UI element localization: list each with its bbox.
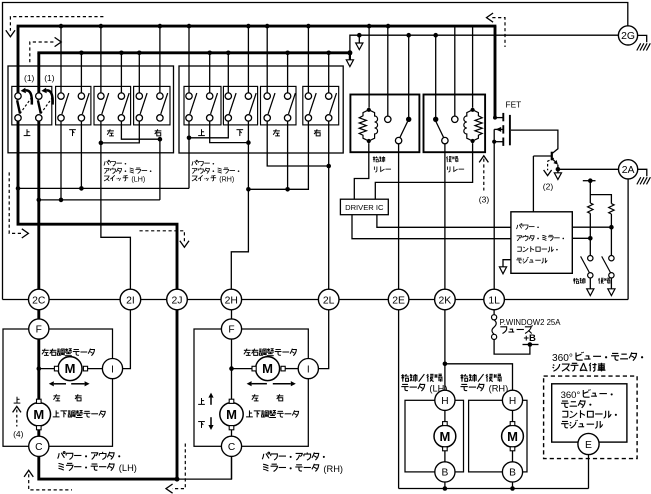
relay box return (fukki) relay — [424, 95, 486, 153]
motor M left-right adjust LH — [86, 368, 103, 370]
svg-text:(RH): (RH) — [489, 383, 509, 393]
switch box power outer mirror switch LH — [8, 66, 174, 153]
connector 2E — [388, 289, 409, 310]
wire return coil to driver IC — [375, 143, 472, 199]
label up-down adjust motor RH — [246, 410, 253, 416]
connector 2H — [221, 289, 242, 310]
label storage relay — [373, 156, 379, 162]
connector I RH — [298, 359, 318, 379]
switch sub-box up LH — [12, 86, 52, 125]
wire A: bus1 down to up-switch LH left (thick) — [17, 26, 20, 93]
svg-text:2G: 2G — [621, 31, 635, 42]
wire B lower run: switch down through 2C F M C to bottom (thick) — [39, 121, 177, 479]
connector 2C — [29, 289, 50, 310]
switch sub-box down LH — [56, 86, 91, 125]
svg-text:2H: 2H — [225, 295, 238, 306]
wire 2G bus (thin ground bus to 2G) — [350, 35, 619, 53]
dashed arrow (4) — [13, 406, 21, 412]
dashed arrow D4 to 2J — [140, 231, 185, 242]
svg-text:H: H — [441, 396, 448, 407]
switch contact pair at x=18 — [15, 93, 21, 99]
wire bus1 (thick top feed) — [17, 25, 497, 28]
svg-text:E: E — [585, 440, 592, 451]
label up-down adjust motor LH — [53, 410, 60, 416]
connector E — [578, 433, 599, 454]
switch contact pair at x=39 — [36, 93, 42, 99]
wire RH right-R down to 2L — [328, 121, 330, 289]
up-down arrows RH — [210, 398, 212, 405]
ground symbol at 2G — [638, 35, 647, 42]
actuated switch blade (thick) at x=39 — [38, 100, 41, 113]
wire to storage motor RH — [445, 364, 513, 390]
connector 2G — [618, 26, 637, 45]
label storage return motor RH — [460, 374, 467, 382]
wire I RH to 2L — [318, 310, 328, 369]
wire RH down-left tie to up-left — [189, 121, 228, 138]
switch contact pair at x=329 — [330, 93, 337, 114]
wire to storage motor LH — [444, 364, 446, 390]
wire 2G bus to return relay NO contact — [435, 35, 437, 119]
actuated switch blade (thick) at x=18 — [17, 100, 20, 113]
connector B RH — [502, 462, 522, 482]
return relay NO contact (filled) — [433, 117, 438, 122]
svg-text:2L: 2L — [323, 295, 335, 306]
storage motor chain LH — [444, 410, 446, 461]
junction dots on 2G bus — [357, 33, 362, 38]
module ground stub with triangle — [503, 260, 511, 267]
connector B LH — [435, 462, 455, 482]
svg-text:F: F — [228, 325, 234, 336]
junction dots on bus2 — [79, 51, 84, 56]
switch contact pair at x=308 — [309, 93, 316, 114]
wire A lower run: switch to 2J to bottom bus (thick) — [18, 121, 177, 479]
dashed arrow D10 bottom middle — [172, 444, 185, 489]
resistor R1 — [588, 203, 593, 213]
dashed arrow D9 bottom left — [24, 470, 33, 477]
label return relay — [446, 156, 451, 162]
wire LH left-pair: left-L to right-L contacts — [100, 121, 102, 143]
connector 2J — [167, 289, 188, 310]
label power outer mirror switch RH — [192, 160, 198, 165]
label left-right adjust motor RH — [244, 349, 251, 356]
switch box power outer mirror switch RH — [179, 66, 343, 153]
junction dot bottom bus — [175, 477, 180, 482]
svg-text:(1): (1) — [44, 73, 55, 83]
labels left right RH — [252, 394, 259, 401]
wire RH up-left down to row1a corner — [188, 121, 190, 188]
svg-text:M: M — [439, 429, 450, 444]
wire row1a: wire A to RH up-left switch — [18, 187, 189, 189]
svg-text:F: F — [36, 325, 42, 336]
return relay moving contact and blade — [442, 137, 448, 143]
storage relay NO contact (filled) — [406, 117, 411, 122]
resistor R2 — [609, 204, 614, 214]
wire fuse to +B node — [494, 340, 530, 355]
dashed box 360 view system — [544, 376, 638, 459]
connector 1L — [484, 289, 505, 310]
connector I LH — [102, 359, 122, 379]
switch sub-box right RH — [303, 86, 339, 125]
dashed arrow (3) — [479, 156, 488, 163]
junction and wire to adjust motor RH — [229, 366, 234, 371]
switch contact pair at x=189 — [190, 93, 197, 114]
wire LH down-left to row2 — [60, 121, 62, 200]
wire bus1 to storage relay coil — [368, 26, 370, 108]
dashed arrow D5 top right — [487, 13, 494, 22]
wire 2K down to storage motors — [444, 310, 446, 364]
bottom ground bus — [399, 488, 589, 490]
switch contact pair at x=210 — [211, 93, 218, 114]
wire FET drain from bus1 (thick) — [494, 26, 497, 118]
off-page triangle below 2G bus — [358, 35, 360, 43]
switch sub-box right LH — [134, 86, 170, 125]
motor M storage RH — [502, 425, 524, 447]
wire 1L to fuse — [493, 310, 495, 315]
svg-text:C: C — [35, 442, 42, 453]
wires to resistors R1 R2 — [589, 181, 591, 203]
connector 2K — [435, 289, 456, 310]
wire transistor base to module — [532, 156, 534, 212]
svg-text:(4): (4) — [13, 429, 24, 439]
off-page triangle below bus2 end — [349, 53, 351, 60]
dashed previous-position blade — [41, 98, 52, 114]
label return switch — [598, 278, 603, 284]
labels up/down/left/right under LH sub-boxes — [24, 129, 31, 135]
wire RH up-right tie to down-right — [210, 121, 249, 143]
wire RH chain F to C to bottom — [231, 310, 233, 479]
actuation arc arrow (1) — [26, 90, 32, 104]
wire bus1 to storage relay NC contact — [387, 26, 389, 116]
svg-text:2C: 2C — [32, 295, 46, 306]
svg-text:(LH): (LH) — [131, 175, 145, 183]
connector F RH — [221, 319, 241, 339]
wire thin bottom: dot to mirror motor RH C — [177, 456, 232, 479]
svg-text:C: C — [228, 442, 235, 453]
switch contact pair at x=61 — [62, 93, 69, 114]
wire B to bottom bus LH — [444, 482, 446, 489]
connector H LH — [435, 390, 455, 410]
dashed previous-position blade — [20, 98, 31, 114]
wire LH right-pair: left-R to right-R contacts — [121, 121, 159, 139]
wire RH left-L tie to right-R — [267, 121, 329, 166]
junction dot bus2 end — [347, 50, 352, 55]
svg-text:(RH): (RH) — [323, 464, 343, 474]
svg-text:I: I — [307, 364, 310, 375]
svg-text:(1): (1) — [24, 73, 35, 83]
wire LH left-pair down jog to 2I — [101, 143, 130, 290]
wire storage coil to driver IC — [354, 143, 369, 199]
switch contact pair at x=228 — [229, 93, 236, 114]
connector H RH — [502, 390, 522, 410]
FET symbol — [495, 117, 503, 119]
svg-text:FET: FET — [506, 100, 522, 110]
wire bus2 (thick second feed) — [37, 51, 350, 54]
svg-text:2E: 2E — [392, 295, 405, 306]
junction dots on bus1 — [59, 24, 64, 29]
wire module to R2 node — [572, 226, 611, 228]
wire LH down-right to row1a — [80, 121, 82, 188]
fuse P.WINDOW2 25A — [492, 315, 497, 320]
switch contact pair at x=267 — [268, 93, 275, 114]
labels left right LH — [53, 394, 60, 401]
svg-text:M: M — [65, 361, 76, 376]
left-right arrows LH — [54, 383, 66, 385]
switch contact pair at x=81 — [82, 93, 89, 114]
dashed arrow D3 left middle — [9, 172, 22, 233]
wire B to bottom bus RH — [512, 482, 514, 489]
off-page triangle below emitter node — [557, 169, 559, 173]
svg-text:1L: 1L — [488, 295, 500, 306]
motor M up-down adjust RH — [220, 403, 243, 426]
svg-text:(3): (3) — [479, 194, 490, 204]
dashed arrow (2) — [548, 158, 554, 170]
switch contact pair at x=121 — [122, 93, 129, 114]
return position switch (fukki) — [610, 227, 612, 255]
wire ground loop: row-line to top edge to 2G — [3, 3, 628, 300]
motor M up-down adjust LH — [27, 403, 50, 426]
switch contact pair at x=101 — [102, 93, 109, 114]
svg-text:M: M — [33, 407, 44, 422]
wire 2G bus to storage relay NO contact — [408, 35, 410, 119]
storage position switch (kakunou) — [589, 238, 591, 255]
switch sub-box up RH — [184, 86, 221, 125]
wire FET gate to transistor collector — [511, 130, 558, 153]
wire driver IC output 2 to module — [377, 215, 511, 228]
connector 2I — [120, 289, 141, 310]
wire RH left-R down to row1b — [287, 121, 289, 189]
left-right arrows RH — [252, 383, 267, 385]
labels up/down/left/right under RH sub-boxes — [198, 129, 205, 135]
svg-text:M: M — [226, 407, 237, 422]
wire row1b: RH common tie line — [248, 121, 308, 189]
transistor Q1 — [551, 152, 553, 161]
power outer mirror control module box — [511, 212, 572, 273]
mirror motor box RH — [194, 329, 308, 446]
svg-text:M: M — [507, 429, 518, 444]
switch sub-box left RH — [261, 86, 297, 125]
svg-text:2J: 2J — [172, 295, 183, 306]
wire F-LH chain is wire B (drawn). junction to adjust motor — [37, 366, 42, 371]
wire 2E down to bottom bus — [398, 310, 400, 489]
label power outer mirror motor RH — [262, 452, 269, 459]
connector row line — [3, 299, 629, 301]
svg-text:(RH): (RH) — [219, 175, 234, 183]
svg-text:360°: 360° — [561, 390, 581, 401]
svg-text:2I: 2I — [126, 295, 135, 306]
svg-text:DRIVER IC: DRIVER IC — [345, 203, 384, 212]
storage relay moving contact and blade — [395, 137, 401, 143]
label power outer mirror motor LH — [58, 452, 65, 459]
svg-text:P.WINDOW2 25A: P.WINDOW2 25A — [500, 318, 562, 327]
ground symbol at 2A — [638, 169, 647, 176]
motor M storage LH — [434, 425, 456, 447]
switch contact pair at x=139 — [140, 93, 147, 114]
label left-right adjust motor LH — [42, 349, 49, 356]
svg-text:2A: 2A — [622, 165, 635, 176]
label up (LH actuated) — [14, 397, 21, 403]
actuation arc arrow (1) — [46, 90, 52, 104]
+B supply node — [523, 344, 539, 346]
svg-text:+B: +B — [524, 333, 537, 344]
label power outer mirror switch LH — [104, 160, 110, 165]
storage motor chain RH — [512, 410, 514, 461]
supply node bar above resistors — [583, 180, 596, 182]
label control module — [517, 224, 523, 229]
wire module to R1 node — [572, 237, 590, 239]
wire row2: wire B to LH right pair — [39, 199, 160, 201]
storage relay coil — [367, 108, 371, 112]
wire driver IC output 1 to module — [352, 215, 511, 239]
connector C LH — [29, 436, 49, 456]
svg-text:360°: 360° — [552, 353, 573, 364]
relay box storage (kakunou) relay — [350, 95, 419, 153]
svg-text:(LH): (LH) — [119, 463, 137, 473]
svg-text:I: I — [111, 364, 114, 375]
wire 2A down to row line — [627, 179, 629, 300]
switch contact pair at x=288 — [289, 93, 296, 114]
return relay coil — [471, 108, 475, 112]
wire B: bus2 down to up-switch LH right (thick) — [37, 53, 40, 93]
storage motor box RH — [469, 400, 527, 472]
dashed arrow D1 top left — [10, 17, 103, 31]
junction dot storage motor feed — [443, 362, 448, 367]
wire RH down-right down through row1b jog to 2H — [231, 121, 248, 289]
switch contact pair at x=248 — [249, 93, 256, 114]
connector C RH — [221, 436, 241, 456]
return relay NC contact (open circle) — [452, 116, 458, 122]
motor M left-right adjust RH — [283, 368, 298, 370]
svg-text:B: B — [442, 468, 449, 479]
storage relay NC contact (open circle) — [385, 116, 391, 122]
wire E to bottom bus — [588, 455, 590, 489]
wire 2I up-jog already drawn; wire I-LH to 2I — [123, 310, 131, 369]
svg-text:2K: 2K — [439, 295, 452, 306]
switch contact pair at x=160 — [161, 93, 168, 114]
label storage switch — [573, 278, 579, 284]
switch sub-box down RH — [223, 86, 257, 125]
wire LH right-R down to row2 — [159, 139, 161, 200]
svg-text:M: M — [262, 361, 273, 376]
wire bus1 to return relay coil — [472, 26, 474, 108]
connector 2L — [318, 289, 339, 310]
mirror motor box LH — [3, 329, 113, 446]
360 view monitor control module box — [552, 384, 627, 442]
wire FET source to 1L — [493, 142, 495, 290]
svg-text:(2): (2) — [543, 182, 554, 192]
connector F LH — [29, 319, 49, 339]
svg-text:B: B — [509, 468, 516, 479]
svg-text:H: H — [509, 396, 516, 407]
dashed arrow D2 — [30, 42, 56, 62]
wire return relay common to 2K — [444, 144, 446, 290]
storage motor box LH — [405, 400, 464, 472]
connector 2A — [619, 160, 638, 179]
switch sub-box left LH — [94, 86, 131, 125]
driver IC box — [340, 199, 388, 215]
wires bus1 to switch top contacts — [60, 26, 62, 93]
wire emitter to 2A — [558, 168, 619, 170]
labels up down RH — [198, 398, 205, 404]
wire bus1 to return relay NC contact — [454, 26, 456, 116]
wire storage relay common to 2E — [398, 144, 400, 290]
label storage return motor LH — [401, 374, 408, 382]
wires bus2 to switch top contacts — [80, 53, 82, 93]
